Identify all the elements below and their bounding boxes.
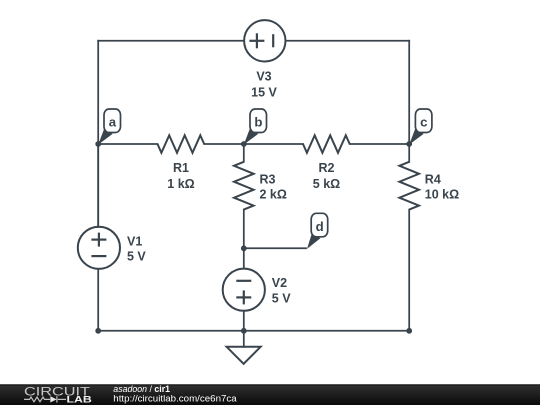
voltage source V2 (223, 269, 265, 311)
wire ground stem (243, 331, 245, 347)
svg-text:15 V: 15 V (251, 86, 277, 100)
wire node d junction to V2 top (243, 248, 245, 268)
wire V2 bottom to bottom rail (243, 311, 245, 331)
resistor R3 (234, 162, 254, 210)
svg-text:d: d (316, 219, 324, 234)
junction bottom-center (ground) (241, 328, 247, 334)
label R1 (167, 161, 194, 191)
wire node b to R2 left lead (244, 143, 303, 145)
svg-text:2 kΩ: 2 kΩ (260, 188, 287, 202)
wire node a to R1 left lead (98, 143, 157, 145)
svg-text:1 kΩ: 1 kΩ (167, 177, 194, 191)
wire node d junction to flag d (244, 247, 306, 249)
svg-text:5 V: 5 V (127, 250, 146, 264)
svg-text:V2: V2 (272, 276, 287, 290)
node a flag (98, 109, 120, 145)
label R4 (425, 173, 459, 202)
junction node a (95, 141, 101, 147)
svg-text:R4: R4 (425, 173, 441, 187)
node b flag (244, 109, 267, 145)
resistor R2 (303, 135, 350, 153)
wire R4 bottom to bottom-right corner (408, 210, 410, 331)
wire left vertical upper (node a to top-left corner) (97, 41, 99, 227)
svg-text:c: c (420, 115, 427, 130)
svg-text:V3: V3 (256, 70, 271, 84)
wire right vertical (top-right corner to node c) (408, 41, 410, 144)
wire node c to R4 top (408, 144, 410, 162)
resistor R4 (399, 162, 419, 210)
label V3 (251, 70, 277, 100)
junction bottom-left (95, 328, 101, 334)
voltage source V1 (78, 227, 120, 269)
wire R2 right lead to node c (350, 143, 410, 145)
CircuitLab logo resistor-diode motif (24, 396, 66, 402)
svg-text:LAB: LAB (67, 394, 93, 404)
svg-text:asadoon / cir1: asadoon / cir1 (113, 384, 170, 394)
svg-text:http://circuitlab.com/ce6n7ca: http://circuitlab.com/ce6n7ca (113, 394, 237, 404)
svg-text:b: b (254, 115, 262, 130)
svg-text:R1: R1 (173, 161, 189, 175)
label R2 (313, 161, 340, 191)
resistor R1 (158, 135, 205, 153)
wire R3 bottom to node d junction (243, 210, 245, 249)
wire R1 right lead to node b (204, 143, 244, 145)
wire V1 bottom to bottom-left corner (97, 269, 99, 331)
svg-text:R3: R3 (260, 173, 276, 187)
wire node a to V1 top (97, 144, 99, 227)
wire top horizontal right (V3 right terminal to top-right corner) (286, 40, 410, 42)
svg-text:a: a (109, 115, 117, 130)
junction node c (406, 141, 412, 147)
svg-text:5 V: 5 V (272, 292, 291, 306)
wire bottom rail (98, 330, 409, 332)
junction bottom-right (406, 328, 412, 334)
node c flag (409, 109, 432, 145)
voltage source V3 (244, 20, 285, 61)
ground (227, 347, 261, 364)
junction node b (241, 141, 247, 147)
svg-text:10 kΩ: 10 kΩ (425, 188, 459, 202)
label V1 (127, 234, 146, 263)
svg-text:V1: V1 (127, 234, 142, 248)
wire top horizontal left (corner to V3 left terminal) (98, 40, 244, 42)
label R3 (260, 173, 287, 202)
node d flag (307, 213, 328, 249)
junction node d wire (241, 245, 247, 251)
wire node b down to R3 top (243, 144, 245, 162)
svg-text:R2: R2 (319, 161, 335, 175)
svg-text:5 kΩ: 5 kΩ (313, 177, 340, 191)
label V2 (272, 276, 291, 305)
